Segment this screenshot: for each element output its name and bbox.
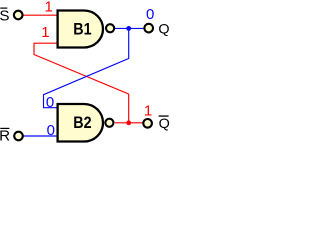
NAND gate B2 — [58, 104, 103, 142]
output terminal Q — [144, 24, 153, 33]
svg-text:B1: B1 — [73, 20, 91, 39]
svg-text:R: R — [0, 128, 10, 145]
node junction on Q net (blue dot) — [126, 26, 131, 31]
output bubble U1 — [106, 24, 114, 32]
input terminal R_bar — [14, 132, 23, 141]
svg-text:Q: Q — [158, 20, 169, 36]
output terminal Q_bar — [143, 119, 152, 128]
svg-text:Q: Q — [159, 115, 170, 131]
wire feedback Q to B2 upper input (blue) — [44, 28, 129, 107]
svg-text:1: 1 — [45, 0, 53, 15]
NAND gate B1 — [58, 11, 103, 48]
svg-text:B2: B2 — [73, 113, 91, 132]
svg-text:1: 1 — [144, 102, 152, 119]
wire R_bar to B2 lower input (blue) — [23, 135, 58, 137]
output bubble U2 — [105, 119, 113, 127]
svg-text:0: 0 — [46, 94, 54, 111]
wire B2 output to Qbar (red) — [115, 122, 143, 124]
svg-text:S: S — [0, 7, 9, 24]
input terminal S_bar — [14, 11, 23, 20]
svg-text:0: 0 — [146, 6, 154, 23]
svg-text:1: 1 — [41, 24, 49, 41]
node junction on Qbar net (red dot) — [126, 120, 131, 125]
wire B1 output to Q (blue) — [114, 27, 144, 29]
wire S_bar to B1 top input — [22, 14, 58, 16]
wire feedback Qbar to B1 lower input (red) — [34, 43, 129, 123]
svg-text:0: 0 — [47, 122, 55, 139]
